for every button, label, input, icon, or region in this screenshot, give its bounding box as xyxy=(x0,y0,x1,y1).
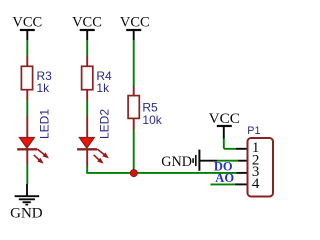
wire AO xyxy=(211,183,235,185)
pin 3 stub xyxy=(237,172,248,174)
pin 2 stub xyxy=(238,160,248,162)
svg-text:1k: 1k xyxy=(96,81,110,95)
wire LED1 to ground xyxy=(26,165,28,185)
wire net DO (horizontal) xyxy=(86,172,236,174)
svg-text:GND: GND xyxy=(10,206,43,222)
svg-text:1k: 1k xyxy=(37,81,51,95)
svg-text:10k: 10k xyxy=(142,113,162,127)
svg-text:4: 4 xyxy=(252,176,260,192)
power terminal VCC (column 4, above P1) xyxy=(209,110,240,139)
LED D1 (LED1) xyxy=(17,116,48,165)
svg-text:VCC: VCC xyxy=(120,15,150,31)
wire R3 to LED1 xyxy=(26,101,28,116)
power terminal VCC (column 1) xyxy=(12,15,42,41)
wire LED2 down to DO net xyxy=(86,166,88,173)
svg-text:VCC: VCC xyxy=(209,110,240,127)
resistor R3 xyxy=(21,56,32,101)
svg-text:VCC: VCC xyxy=(12,15,42,31)
ground terminal GND xyxy=(10,184,43,222)
power terminal VCC (column 3) xyxy=(120,15,150,41)
wire R5 down to DO net xyxy=(133,131,135,173)
wire VCC to pin 1 xyxy=(224,139,236,149)
svg-text:AO: AO xyxy=(215,171,234,185)
wire VCC to R5 xyxy=(133,40,135,87)
power terminal VCC (column 2) xyxy=(72,15,102,41)
svg-text:LED2: LED2 xyxy=(98,109,112,139)
svg-text:LED1: LED1 xyxy=(38,109,52,139)
junction dot xyxy=(130,170,137,177)
wire VCC to R4 xyxy=(86,40,88,56)
resistor R5 xyxy=(128,87,139,131)
svg-text:VCC: VCC xyxy=(72,15,102,31)
wire GND to pin 2 xyxy=(217,160,238,162)
resistor R4 xyxy=(82,56,93,101)
wire VCC to R3 xyxy=(26,40,28,56)
svg-text:GND: GND xyxy=(161,154,192,170)
LED D2 (LED2) xyxy=(77,116,108,167)
ground terminal GND (right, rotated) xyxy=(161,150,217,171)
svg-text:P1: P1 xyxy=(247,125,260,137)
pin 4 stub xyxy=(235,183,248,185)
wire R4 to LED2 xyxy=(86,101,88,116)
pin 1 stub xyxy=(236,148,248,150)
connector P1 xyxy=(248,138,274,197)
